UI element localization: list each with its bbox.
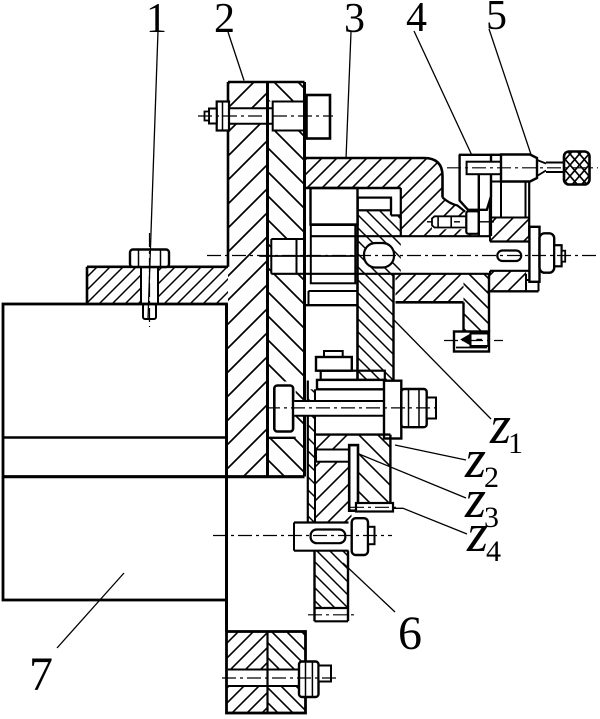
- flange: [227, 632, 306, 714]
- center line: stop box axis: [444, 340, 503, 342]
- leader line for label 4: [414, 31, 472, 155]
- center line: bolt 1 axis: [149, 233, 151, 327]
- leader line for label 2: [228, 32, 244, 81]
- leader line for label z1: [394, 320, 491, 419]
- bearing cap and spacer plate: [305, 188, 358, 371]
- leader line for label z2: [395, 445, 466, 460]
- hatch: column right plate (part 3): [268, 82, 305, 477]
- bar outline: [87, 265, 228, 268]
- center line: screw 5 axis: [447, 167, 598, 169]
- svg-text:1: 1: [146, 0, 167, 42]
- hatch: gear z4 hub: [315, 435, 352, 523]
- svg-text:4: 4: [406, 0, 427, 41]
- leader line for label 1: [148, 31, 158, 319]
- hatch: gear z2 body: [358, 435, 390, 504]
- right bearing block outline: [488, 182, 539, 292]
- svg-text:5: 5: [486, 0, 507, 39]
- svg-text:3: 3: [344, 0, 365, 42]
- bolt at part 2 top: [205, 95, 331, 139]
- hatch: column left plate (part 2): [228, 82, 268, 477]
- center line: z4 rim: [350, 506, 399, 508]
- hatch: right bearing block: [490, 218, 529, 242]
- gear stack z2 z3 z4 outlines: [315, 435, 393, 512]
- leader line for label z3: [359, 454, 466, 498]
- bracket 3 arm outline: [305, 158, 490, 332]
- main shaft and bore: [259, 225, 529, 283]
- gear z1: [358, 188, 401, 380]
- set screw near item 4: [427, 211, 494, 234]
- leader line for label 3: [346, 32, 351, 159]
- hatch: bottom flange right half: [268, 632, 306, 714]
- leader line for label 5: [489, 29, 531, 155]
- leader line for label 6: [343, 563, 395, 612]
- svg-text:2: 2: [214, 0, 235, 42]
- svg-text:6: 6: [398, 607, 422, 660]
- part 7 workpiece block: [3, 304, 305, 600]
- center line: main shaft axis: [207, 255, 597, 257]
- center line: sleeve 6 bolt axis: [213, 535, 392, 537]
- svg-text:3: 3: [484, 501, 499, 534]
- gear mounting bolt with nut: [269, 381, 436, 439]
- center line: sleeve 6 rim: [308, 614, 355, 616]
- leader line for label 7: [57, 573, 124, 648]
- flange bolt: [228, 662, 331, 698]
- leader line for label z4: [394, 508, 468, 534]
- sleeve 6 keyed bolt: [294, 518, 375, 555]
- hatch: top arm of bracket 3: [305, 158, 443, 188]
- spacer sleeve: [311, 225, 356, 283]
- lower stop box with arrow mark: [454, 332, 489, 352]
- svg-text:1: 1: [508, 427, 523, 460]
- bolt 1: [130, 250, 169, 320]
- center line: flange bolt axis: [222, 677, 338, 679]
- svg-text:2: 2: [484, 461, 499, 494]
- hatch: gear z1 body: [358, 210, 401, 273]
- center line: top bolt axis: [198, 115, 333, 117]
- shaft end washer and nut: [529, 227, 565, 282]
- hatch: sleeve 6 bottom rim: [315, 551, 349, 608]
- sleeve 6 upper flange bands: [308, 371, 386, 523]
- hatch: sleeve 6 tube: [308, 389, 315, 522]
- sleeve 6 bottom rim outline: [315, 551, 349, 622]
- clamp 4 and adjusting screw 5: [459, 152, 590, 237]
- column plates outline (parts 2 and 3): [87, 82, 306, 713]
- flange bolt hole band: [227, 670, 300, 687]
- center line: gear bolt axis: [266, 407, 437, 409]
- hatch: bottom flange left half: [227, 632, 268, 714]
- svg-text:4: 4: [486, 535, 501, 568]
- hatch: top-left bracket bar: [87, 267, 228, 304]
- hatch: housing below shaft: [396, 274, 464, 303]
- svg-text:7: 7: [29, 648, 53, 701]
